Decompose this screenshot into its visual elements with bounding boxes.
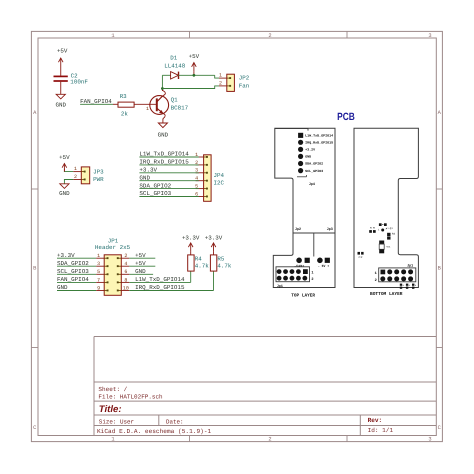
PCB heading	[337, 111, 355, 123]
svg-text:R4: R4	[195, 255, 202, 262]
svg-text:+5V: +5V	[135, 260, 146, 267]
JP1 pin number 9	[97, 285, 100, 291]
svg-text:+5V: +5V	[135, 252, 146, 259]
bottom layer caption	[370, 291, 403, 297]
svg-text:3: 3	[428, 33, 431, 39]
svg-text:Id: 1/1: Id: 1/1	[368, 427, 394, 434]
diode D1 LL4148	[164, 54, 186, 79]
JP1 pin number 5	[97, 269, 100, 275]
label SCL_GPIO3 on JP1 pin 5	[57, 268, 89, 275]
svg-text:IRQ_RxD_GPIO15: IRQ_RxD_GPIO15	[135, 284, 185, 291]
top layer Jp4 pad labels	[305, 134, 333, 173]
bottom layer Q1 footprint	[378, 228, 387, 232]
svg-text:JP4: JP4	[214, 172, 225, 179]
svg-text:1: 1	[375, 271, 377, 276]
wire to JP1 pin 9	[57, 290, 104, 292]
title block KiCad version	[97, 428, 212, 435]
svg-text:2k: 2k	[121, 111, 128, 118]
svg-text:2: 2	[74, 174, 77, 180]
wire to JP2 pin 1	[215, 75, 227, 78]
svg-text:GND: GND	[305, 155, 311, 159]
svg-text:+3.3V: +3.3V	[205, 234, 223, 241]
power +5V symbol at fan	[189, 53, 200, 75]
top layer Jp1 connector	[276, 267, 314, 289]
JP4 pin number 6	[195, 191, 198, 197]
JP1 pin number 1	[97, 253, 100, 259]
label IRQ_RxD_GPIO15 on JP1 pin 10	[135, 284, 185, 291]
wire to JP1 pin 1	[57, 257, 104, 259]
JP1 pin number 2	[124, 253, 127, 259]
svg-text:LL4148: LL4148	[164, 62, 186, 69]
label GND on JP1 pin 9	[57, 284, 68, 291]
power +3.3V symbol above R4	[182, 234, 200, 255]
svg-text:GND: GND	[59, 190, 70, 197]
top layer Jp3 5V pads	[317, 258, 330, 269]
svg-text:BOTTOM LAYER: BOTTOM LAYER	[370, 291, 403, 297]
svg-text:1: 1	[311, 271, 313, 276]
capacitor C2	[54, 73, 89, 86]
wire +5V to C2	[60, 67, 62, 76]
svg-text:1: 1	[111, 437, 114, 443]
ground symbol below Q1	[158, 123, 169, 139]
ground symbol below C2	[56, 94, 67, 108]
svg-text:- 5V +: - 5V +	[318, 264, 329, 268]
svg-text:+5V: +5V	[189, 53, 200, 60]
connector JP3 PWR	[81, 167, 104, 184]
svg-text:1: 1	[97, 253, 100, 259]
wire node to JP2 pin 2	[162, 86, 226, 89]
JP4 pin number 1	[195, 152, 198, 158]
power +3.3V symbol above R5	[205, 234, 223, 255]
svg-text:R3: R3	[120, 93, 127, 100]
top layer board outline	[273, 128, 335, 287]
wire to JP4 pin 2	[139, 164, 203, 166]
label +3.3V on JP4 pin 3	[139, 167, 157, 174]
bottom layer Jp1 connector	[375, 264, 416, 283]
connector JP2 Fan	[227, 74, 250, 91]
wire R3 to Q1 base	[134, 103, 156, 105]
label +5V on JP1 pin 4	[135, 260, 146, 267]
title block sheet Id	[368, 427, 394, 434]
frame tick marks	[31, 31, 442, 441]
connector JP1 Header 2x5	[104, 255, 121, 295]
svg-text:2: 2	[311, 277, 313, 282]
wire from JP1 pin 8	[121, 281, 190, 283]
svg-text:GND: GND	[56, 101, 67, 108]
label SCL_GPIO3 on JP4 pin 6	[139, 190, 171, 197]
svg-text:L1W_TxD_GPIO14: L1W_TxD_GPIO14	[305, 134, 333, 138]
svg-text:L1W_TxD_GPIO14: L1W_TxD_GPIO14	[135, 276, 185, 283]
svg-text:PWR: PWR	[93, 176, 104, 183]
wire to JP4 pin 1	[139, 156, 203, 158]
resistor R3	[118, 93, 134, 117]
svg-text:1: 1	[195, 152, 198, 158]
power +5V symbol at JP3	[59, 154, 70, 172]
wire FAN_GPIO4 to R3	[80, 103, 118, 105]
title block text Sheet	[98, 386, 127, 393]
bottom layer R footprint	[369, 227, 376, 233]
wire from JP1 pin 4	[121, 265, 155, 267]
svg-text:R4 R5: R4 R5	[370, 227, 376, 230]
svg-text:100nF: 100nF	[70, 79, 88, 86]
svg-text:+5V: +5V	[57, 48, 68, 55]
junction +5V node	[193, 74, 196, 77]
label L1W_TxD_GPIO14 on JP4 pin 1	[139, 151, 189, 158]
svg-text:SCL_GPIO3: SCL_GPIO3	[305, 169, 323, 173]
JP1 pin number 8	[124, 277, 127, 283]
svg-text:2: 2	[268, 437, 271, 443]
title block Rev	[368, 417, 383, 424]
wire to JP4 pin 6	[139, 196, 203, 198]
top layer Jp2 Jp3 labels	[295, 227, 333, 232]
svg-text:9: 9	[97, 285, 100, 291]
top layer Jp4 footprint pads	[298, 133, 303, 173]
top layer silkscreen lines	[293, 233, 335, 257]
svg-text:2: 2	[219, 80, 222, 86]
wire +5V to JP3 pin 1	[64, 169, 81, 172]
svg-text:Title:: Title:	[99, 404, 122, 415]
svg-text:GND: GND	[135, 268, 146, 275]
svg-text:+5V: +5V	[59, 154, 70, 161]
svg-text:+Q1: +Q1	[388, 227, 393, 230]
bottom layer resistor footprints below Jp1	[400, 284, 417, 289]
svg-text:Jp2: Jp2	[295, 227, 301, 232]
svg-text:Jp1: Jp1	[407, 264, 413, 269]
svg-text:KiCad E.D.A. eeschema (5.1.9): KiCad E.D.A. eeschema (5.1.9)-1	[97, 428, 212, 435]
svg-text:GND: GND	[158, 132, 169, 139]
bottom layer fan connector footprint	[379, 241, 391, 254]
label GND on JP4 pin 4	[139, 174, 150, 181]
svg-text:-FAN+: -FAN+	[294, 264, 304, 268]
svg-text:Jp4: Jp4	[309, 182, 316, 187]
svg-text:3: 3	[428, 437, 431, 443]
resistor R5	[210, 255, 231, 271]
label FAN_GPIO4 on JP1 pin 7	[57, 276, 89, 283]
top layer Jp2 fan pads	[294, 258, 310, 269]
JP4 pin number 5	[195, 184, 198, 190]
svg-text:I2C: I2C	[214, 179, 225, 186]
JP4 pin number 4	[195, 176, 198, 182]
top layer Jp4 silkscreen	[275, 128, 316, 187]
label +5V on JP1 pin 2	[135, 252, 146, 259]
label +3.3V on JP1 pin 1	[57, 252, 75, 259]
svg-text:3: 3	[195, 168, 198, 174]
title block lines	[94, 337, 436, 436]
svg-text:Fan: Fan	[239, 82, 250, 89]
svg-text:+3.2V: +3.2V	[305, 148, 315, 152]
svg-text:1: 1	[146, 106, 149, 112]
svg-text:R5: R5	[217, 255, 224, 262]
svg-text:IRQ_RxD_GPIO15: IRQ_RxD_GPIO15	[305, 141, 333, 145]
svg-text:2: 2	[375, 278, 377, 283]
JP2 pin numbers	[219, 73, 222, 87]
wire JP1 pin 8 to R4	[190, 271, 192, 282]
label IRQ_RxD_GPIO15 on JP4 pin 2	[139, 159, 189, 166]
svg-text:1: 1	[111, 33, 114, 39]
label SDA_GPIO2 on JP1 pin 3	[57, 260, 89, 267]
svg-text:Q1: Q1	[171, 97, 178, 104]
wire from JP1 pin 2	[121, 257, 155, 259]
label FAN_GPIO4	[80, 98, 112, 105]
Q1 base pin number 1	[146, 106, 149, 112]
JP1 reference text	[95, 237, 131, 251]
wire GND to JP3 pin 2	[64, 180, 81, 184]
wire to JP1 pin 7	[57, 281, 104, 283]
svg-text:C2: C2	[359, 256, 364, 259]
JP1 pin number 7	[97, 277, 100, 283]
svg-text:1: 1	[219, 73, 222, 79]
JP3 pin numbers	[74, 166, 77, 180]
svg-text:2: 2	[268, 33, 271, 39]
svg-text:+3.3V: +3.3V	[182, 234, 200, 241]
svg-text:C: C	[438, 425, 441, 431]
svg-text:Sheet: /: Sheet: /	[98, 386, 127, 393]
JP1 pin number 3	[97, 261, 100, 267]
svg-text:D1: D1	[170, 54, 177, 61]
wire from JP1 pin 6	[121, 273, 153, 275]
wire JP1 pin 10 to R5	[213, 271, 215, 290]
svg-text:Header 2x5: Header 2x5	[95, 244, 131, 251]
bottom layer C2 footprint	[358, 252, 364, 259]
svg-text:5: 5	[97, 269, 100, 275]
bottom layer small pads	[379, 223, 387, 226]
title block Size and Date	[99, 419, 184, 426]
wire C2 to ground	[60, 82, 62, 95]
svg-text:5: 5	[195, 184, 198, 190]
wire to JP1 pin 3	[57, 265, 104, 267]
svg-text:SDA_GPIO2: SDA_GPIO2	[305, 162, 323, 166]
svg-text:PCB: PCB	[337, 111, 355, 123]
title block Title label	[99, 404, 122, 415]
frame column/row labels	[33, 33, 442, 443]
ground symbol below JP3	[59, 184, 70, 197]
connector JP4 I2C	[204, 155, 225, 202]
sheet frame inner border	[38, 38, 436, 436]
label GND on JP1 pin 6	[135, 268, 146, 275]
svg-text:File: HATL02FP.sch: File: HATL02FP.sch	[98, 394, 163, 401]
svg-text:+D1: +D1	[386, 246, 392, 249]
svg-text:4: 4	[195, 176, 198, 182]
wire to JP4 pin 3	[139, 172, 203, 174]
wire D1 cathode to +5V node	[179, 74, 215, 76]
svg-text:BC817: BC817	[171, 104, 189, 111]
junction collector node	[161, 87, 164, 90]
bottom layer D1 footprint	[388, 227, 393, 230]
svg-text:TOP LAYER: TOP LAYER	[291, 292, 315, 298]
svg-text:4.7k: 4.7k	[195, 263, 209, 270]
title block text File	[98, 394, 163, 401]
svg-text:Jp3: Jp3	[327, 227, 333, 232]
transistor Q1 BC817	[150, 89, 189, 124]
svg-text:Rev:: Rev:	[368, 417, 383, 424]
wire from JP1 pin 10	[121, 290, 213, 292]
svg-text:2: 2	[195, 160, 198, 166]
svg-text:3: 3	[97, 261, 100, 267]
label L1W_TxD_GPIO14 on JP1 pin 8	[135, 276, 185, 283]
resistor R4	[188, 255, 210, 271]
wire to JP4 pin 5	[139, 188, 203, 190]
top layer caption	[291, 292, 315, 298]
bottom layer board outline	[354, 128, 418, 287]
JP4 pin number 2	[195, 160, 198, 166]
label SDA_GPIO2 on JP4 pin 5	[139, 182, 171, 189]
svg-text:7: 7	[97, 277, 100, 283]
JP4 pin number 3	[195, 168, 198, 174]
wire Q1 collector to node	[161, 75, 163, 88]
svg-text:C: C	[33, 425, 36, 431]
JP1 pin number 10	[123, 285, 129, 291]
svg-text:Date:: Date:	[166, 419, 184, 426]
svg-text:Jp1: Jp1	[277, 284, 283, 289]
wire node to D1 anode	[162, 74, 170, 76]
svg-text:6: 6	[195, 191, 198, 197]
svg-text:JP3: JP3	[93, 168, 104, 175]
power +5V symbol above C2	[57, 48, 68, 67]
wire to JP1 pin 5	[57, 273, 104, 275]
JP1 pin number 6	[124, 269, 127, 275]
svg-text:JP2: JP2	[239, 75, 250, 82]
JP1 pin number 4	[124, 261, 127, 267]
svg-text:4.7k: 4.7k	[217, 263, 231, 270]
bottom layer R3 footprint	[387, 233, 396, 240]
svg-text:1: 1	[74, 166, 77, 172]
wire to JP4 pin 4	[139, 180, 203, 182]
svg-text:Size: User: Size: User	[99, 419, 135, 426]
sheet frame outer border	[31, 31, 442, 441]
